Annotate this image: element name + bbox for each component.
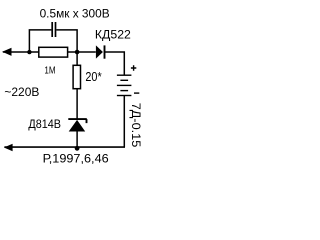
svg-text:Р,1997,6,46: Р,1997,6,46 <box>43 152 109 165</box>
wire: node A riser and capacitor branch left segment <box>29 30 51 53</box>
node B junction <box>75 50 80 55</box>
wire: R1 to node B <box>68 51 96 53</box>
svg-text:~220В: ~220В <box>4 87 39 99</box>
svg-text:20*: 20* <box>85 70 101 84</box>
terminal arrow X2 (mains, lower) <box>4 144 13 152</box>
node A junction <box>27 50 31 54</box>
polarity label minus <box>134 92 139 94</box>
wire: upper mains lead <box>3 51 39 53</box>
polarity label plus <box>131 65 136 70</box>
wire: battery negative down to bottom rail <box>123 96 125 148</box>
zener diode VD2 Д814В <box>68 119 87 131</box>
resistor R1 <box>39 47 68 57</box>
capacitor C1 <box>52 22 55 37</box>
svg-text:7Д-0.15: 7Д-0.15 <box>129 103 143 148</box>
wire: VD2 anode to bottom rail <box>76 131 78 147</box>
wire: capacitor branch right segment and riser to node B <box>56 30 77 53</box>
svg-text:0.5мк х 300В: 0.5мк х 300В <box>40 7 110 21</box>
wire: VD1 cathode to battery positive <box>105 52 125 75</box>
svg-text:КД522: КД522 <box>95 28 131 42</box>
battery GB1 plates <box>117 75 131 95</box>
resistor R2 <box>73 65 80 88</box>
wire: node B down to R2 <box>76 52 78 65</box>
svg-text:1М: 1М <box>44 65 55 76</box>
diode VD1 КД522 <box>96 45 105 58</box>
wire: R2 to VD2 <box>76 89 78 119</box>
svg-text:Д814В: Д814В <box>28 117 61 131</box>
node C junction <box>75 146 80 151</box>
wire: bottom rail <box>4 146 125 148</box>
terminal arrow X1 (mains, upper) <box>2 48 11 56</box>
